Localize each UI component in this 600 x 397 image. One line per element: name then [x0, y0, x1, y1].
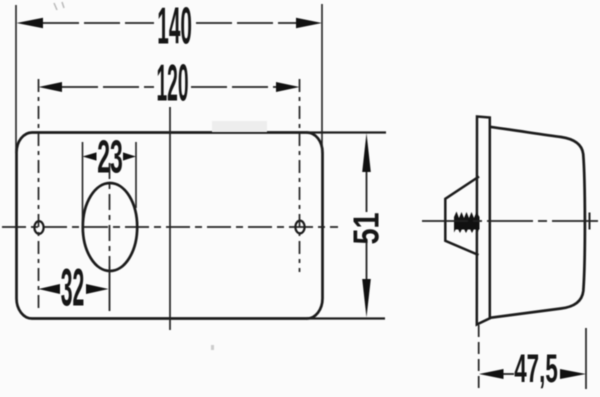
dim 140 arrow left — [17, 18, 44, 28]
left mounting hole — [34, 221, 43, 234]
svg-text:23: 23 — [97, 131, 123, 183]
left mounting hole centerline — [38, 79, 40, 311]
dim 140 arrow right — [296, 18, 322, 28]
dim 120 line — [62, 86, 154, 88]
dim 23 extension line left — [82, 142, 84, 232]
svg-text:47,5: 47,5 — [514, 346, 558, 390]
dim 47.5 line — [503, 373, 514, 375]
dim 51 extension line top — [306, 131, 386, 133]
dim 140 extension line left — [15, 5, 17, 153]
side centerline tick — [589, 213, 591, 230]
dim 47.5 arrow left — [479, 369, 504, 379]
svg-text:32: 32 — [61, 257, 85, 317]
dim 51 arrow bottom — [362, 279, 371, 318]
dim 140 line — [43, 22, 154, 24]
svg-text:120: 120 — [156, 55, 188, 112]
hole vertical centerline — [109, 163, 111, 266]
front view lamp body outline — [17, 133, 323, 319]
dim 120 arrow right — [276, 82, 300, 92]
dim 51 line — [366, 170, 368, 212]
dim 32 arrow left — [39, 284, 61, 294]
side view mounting bracket — [445, 177, 479, 256]
dim 51 arrow top — [362, 133, 371, 172]
dim 23 arrow left — [83, 152, 97, 160]
dim 51 extension line bottom — [306, 317, 385, 319]
right mounting hole — [295, 221, 304, 234]
dim 32 arrow right — [86, 284, 109, 294]
dim 23 extension line right — [135, 142, 137, 208]
right mounting hole centerline — [299, 79, 301, 272]
svg-text:51: 51 — [345, 212, 386, 244]
side view centerline — [422, 220, 598, 222]
lamp hole ellipse — [83, 183, 137, 271]
faint scan marks — [54, 2, 64, 10]
svg-text:140: 140 — [157, 0, 192, 55]
dim 140 extension line right — [321, 4, 323, 153]
vertical centerline front view — [169, 107, 171, 330]
dim 23 arrow right — [123, 152, 136, 160]
dim 120 arrow left — [39, 82, 63, 92]
dim 47.5 extension line left — [478, 325, 480, 389]
side view flange plate — [477, 117, 490, 325]
dim 47.5 arrow right — [560, 369, 586, 379]
dim 47.5 extension line right — [585, 328, 587, 389]
horizontal centerline front view — [2, 226, 338, 228]
side view housing — [490, 127, 585, 318]
threaded stud — [454, 212, 480, 230]
